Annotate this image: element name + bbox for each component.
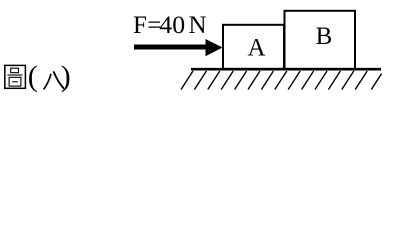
svg-text:A: A bbox=[247, 35, 265, 62]
block A bbox=[223, 25, 284, 69]
svg-text:N: N bbox=[189, 12, 207, 39]
svg-text:40: 40 bbox=[159, 10, 185, 39]
svg-text:(: ( bbox=[28, 60, 38, 93]
figure label: character 圖 bbox=[5, 65, 26, 88]
block B bbox=[285, 11, 356, 69]
ground line bbox=[191, 68, 381, 71]
svg-text:): ) bbox=[61, 60, 71, 93]
figure label: character 八 bbox=[44, 71, 64, 89]
force arrow bbox=[134, 39, 223, 56]
ground hatching bbox=[181, 71, 382, 90]
svg-text:F: F bbox=[133, 12, 147, 39]
svg-text:B: B bbox=[316, 23, 333, 50]
